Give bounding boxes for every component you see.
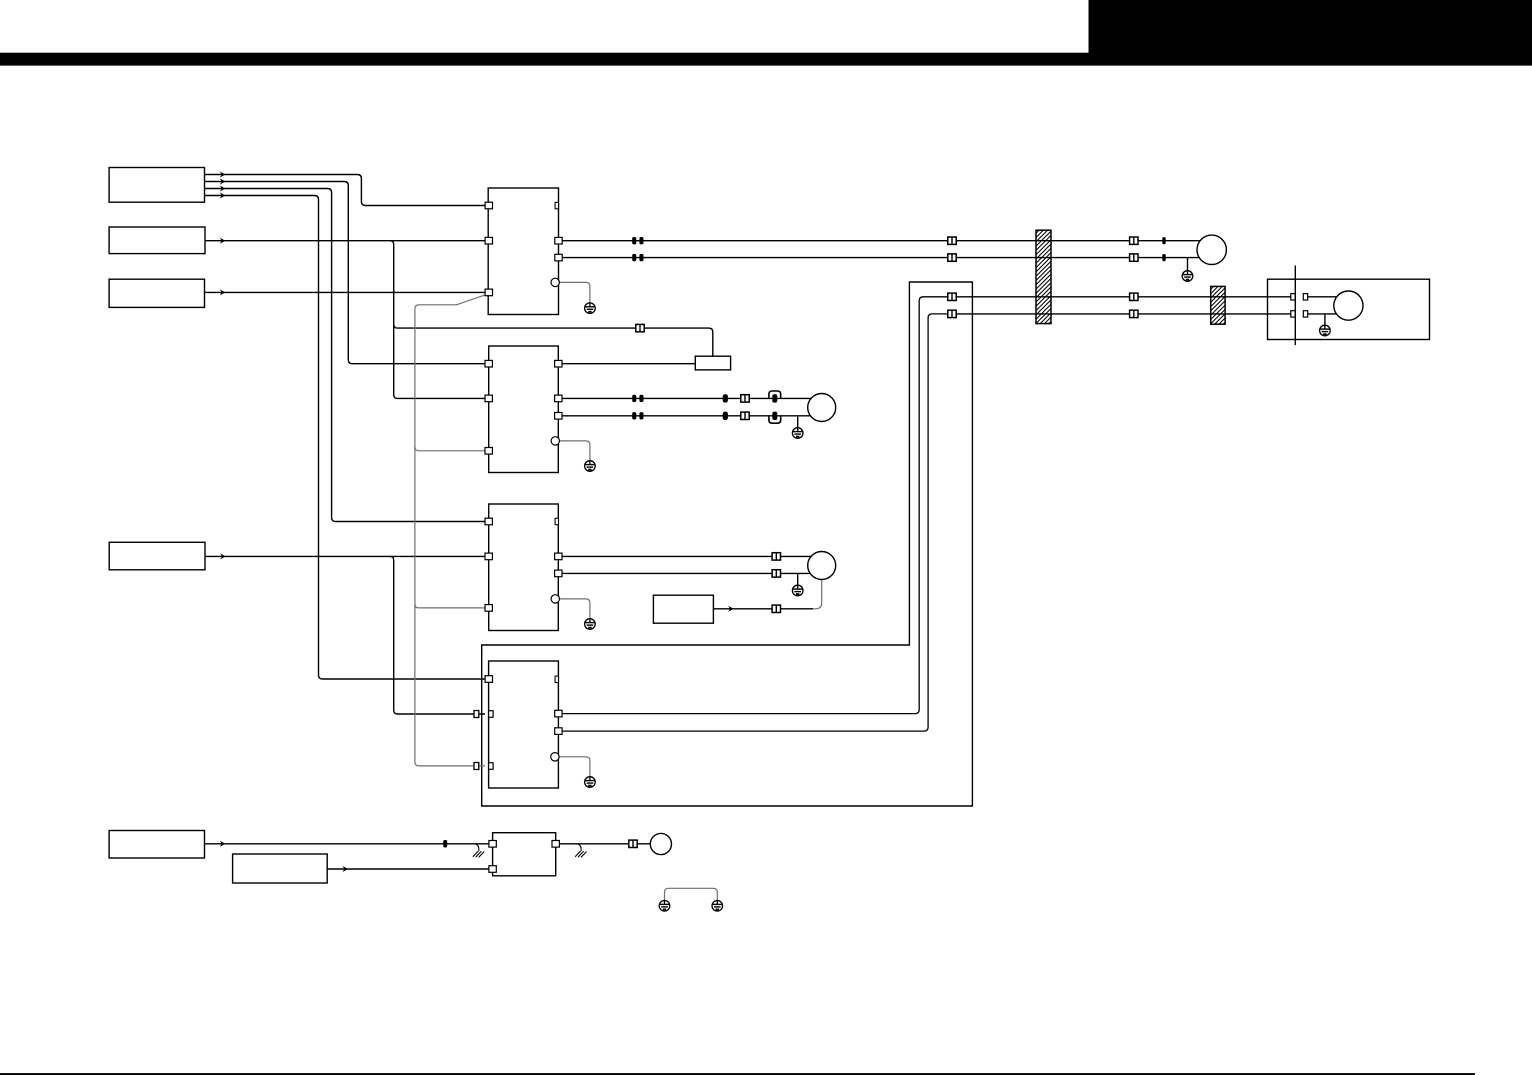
chassis ground on sounder line — [575, 844, 586, 858]
component box B4 — [109, 542, 205, 570]
wire to SP2 bottom terminal — [813, 580, 822, 609]
splice dot pair L at y=257.6 — [632, 254, 636, 261]
unit box RU (right-side device) — [1268, 279, 1430, 339]
grey bus branch to U2 pin3 — [415, 447, 485, 451]
connector unit U4 — [489, 661, 559, 788]
shield hatch bar 1 — [1036, 230, 1051, 323]
ground G6 (SP2) — [792, 585, 803, 596]
splice dot pair R at y=257.6 — [639, 254, 643, 261]
U4 pin out2 right — [555, 728, 562, 735]
splice dot SP1 line1 — [723, 394, 728, 402]
RU mounting boundary line — [1294, 266, 1296, 346]
wire U3 out2 to speaker SP2 — [562, 572, 811, 574]
ground G4 (U4) — [585, 777, 596, 788]
connector half U4 pin3 — [474, 763, 479, 770]
U5 pin 2 left — [489, 866, 496, 873]
speaker SP1 — [808, 394, 836, 422]
connector unit U5 — [493, 833, 556, 876]
wire U2 out1 to fuse box F — [562, 363, 696, 365]
U3 pin 1 left — [485, 518, 492, 525]
splice dot B5 line — [443, 840, 447, 848]
U3 top-right stub pin — [555, 518, 558, 524]
connector C relay line — [772, 605, 780, 612]
U2 pin out1 right — [555, 360, 562, 367]
sounder SP4 — [650, 833, 671, 854]
U3 pin out2 right — [555, 570, 562, 577]
RU pin row3 left — [1291, 294, 1295, 300]
grey bus branch to U3 pin3 — [415, 604, 485, 608]
wire branch B2 down to U2 pin2 — [390, 241, 485, 399]
U4 pin out1 right — [555, 710, 562, 717]
connector C SP2 line2 — [772, 570, 780, 577]
ground G7 (SP3) — [1182, 271, 1193, 282]
motor M in right unit — [1334, 291, 1363, 320]
wire U2 case ground — [559, 441, 590, 461]
splice dot pair R at y=398.4 — [639, 395, 643, 402]
bulb socket upper — [769, 391, 781, 397]
splice dot SP1 line2 — [723, 412, 728, 420]
connector C row4 right — [1130, 310, 1138, 317]
component box B2 — [109, 227, 205, 254]
grey bus U1 pin3 daisy chain — [415, 295, 486, 766]
wire B1 out2 to U2 pin1 — [205, 182, 486, 364]
wire row3 to right unit RU — [956, 296, 1291, 298]
connector C row1 right — [1130, 237, 1138, 244]
speaker SP3 — [1197, 235, 1226, 264]
connector C SP1 line1 — [741, 395, 749, 402]
wire B4 to U3 pin2 — [205, 555, 485, 557]
RU pin row3 right — [1303, 294, 1307, 300]
wire relay output after connector — [781, 608, 814, 610]
chassis ground on B5 line — [473, 844, 484, 858]
RU pin row4 right — [1303, 311, 1307, 317]
connector C row4 left — [948, 310, 956, 317]
wire SP1 ground drop — [797, 416, 799, 428]
wire U1 out2 to speaker SP3 — [562, 257, 1199, 259]
arrow B2 — [220, 238, 226, 244]
wire U4 out2 up through enclosure — [562, 314, 948, 731]
splice dot pair R at y=415.8 — [639, 412, 643, 419]
arrow relay output — [728, 606, 734, 612]
splice dot pair R at y=240.7 — [639, 237, 643, 244]
U1 top-right stub pin — [555, 202, 558, 208]
splice dot pair L at y=398.4 — [632, 395, 636, 402]
header rule bar — [0, 53, 1532, 66]
connector unit U1 — [488, 188, 558, 315]
connector C fuse line — [636, 324, 644, 331]
wire B1 out1 to U1 pin1 — [205, 175, 486, 206]
U5 pin out right — [552, 841, 559, 848]
wire U4 out1 up through enclosure — [562, 297, 948, 714]
ground G10 — [712, 901, 723, 912]
U1 case ground port — [551, 278, 559, 286]
arrow B1 out2 — [220, 178, 226, 184]
wire SP3 ground drop — [1187, 258, 1189, 271]
splice dot pair L at y=240.7 — [632, 237, 636, 244]
U2 pin out3 right — [555, 413, 562, 420]
speaker SP2 — [808, 552, 836, 580]
wire RU pin to motor — [1308, 296, 1338, 298]
wire B2 to U1 pin2 — [205, 240, 485, 242]
wire U3 case ground — [559, 599, 590, 619]
wire twin ground bracket — [665, 888, 718, 900]
component box B3 — [109, 279, 204, 307]
component box B1 (4-output source) — [109, 168, 204, 203]
connector C row2 right — [1130, 254, 1138, 261]
wire branch to fuse box F — [394, 324, 713, 356]
U1 pin 3 left — [485, 289, 492, 296]
shield hatch bar 2 — [1211, 286, 1225, 324]
arrow B6 — [343, 866, 349, 872]
wire U3 out1 to speaker SP2 — [562, 555, 811, 557]
connector C row1 left — [948, 237, 956, 244]
connector C row3 left — [948, 293, 956, 300]
U2 pin 1 left — [485, 360, 492, 367]
splice dot pair L at y=415.8 — [632, 412, 636, 419]
arrow B3 — [220, 289, 226, 295]
wire B5 to U5 pin1 — [205, 843, 490, 845]
U3 case ground port — [551, 595, 559, 603]
U2 case ground port — [551, 437, 559, 445]
ground G3 (U3) — [585, 619, 596, 630]
wire U2 out3 to speaker SP1 — [562, 415, 811, 417]
arrow B5 — [220, 841, 226, 847]
wire RU pin to motor low — [1308, 313, 1337, 315]
splice dot row1 right — [1162, 237, 1165, 244]
wire U1 out1 to speaker SP3 — [562, 240, 1200, 242]
wire U2 out2 to speaker SP1 — [562, 397, 811, 399]
U3 pin out1 right — [555, 553, 562, 560]
wire SP2 ground drop — [797, 573, 799, 585]
harness enclosure boundary — [482, 282, 973, 806]
connector unit U3 — [489, 504, 559, 631]
arrow B1 out4 — [220, 192, 226, 198]
fuse box F — [695, 356, 730, 370]
connector C row3 right — [1130, 293, 1138, 300]
wire U1 case ground — [559, 282, 590, 302]
U1 pin 1 left — [485, 202, 492, 209]
U4 top-right stub pin — [555, 676, 558, 682]
U2 pin 2 left — [485, 395, 492, 402]
U3 pin 3 left — [485, 605, 492, 612]
ground G8 (right unit) — [1320, 325, 1331, 336]
footer rule — [0, 1073, 1475, 1075]
ground G1 (U1) — [585, 303, 596, 314]
wire U4 case ground — [559, 757, 590, 777]
wire B1 out3 to U3 pin1 — [205, 189, 486, 522]
component box B6 — [233, 854, 328, 883]
U4 case ground port — [551, 753, 559, 761]
U1 pin out1 right — [555, 237, 562, 244]
wire row4 to right unit RU — [956, 313, 1291, 315]
U1 pin out2 right — [555, 254, 562, 261]
splice dot row2 right — [1162, 254, 1165, 261]
RU pin row4 left — [1291, 311, 1295, 317]
ground G5 (SP1) — [792, 428, 803, 439]
component box B5 — [109, 831, 204, 859]
wire relay R output — [713, 608, 772, 610]
U4 pin 3 left half — [489, 763, 494, 770]
connector half U4 pin2 — [474, 711, 479, 718]
connector C sounder line — [629, 840, 637, 847]
connector C row2 left — [948, 254, 956, 261]
ground G9 — [659, 901, 670, 912]
wire B6 to U5 pin2 — [327, 868, 489, 870]
relay box R — [653, 595, 713, 623]
U1 pin 2 left — [485, 237, 492, 244]
wire RU ground drop — [1324, 314, 1326, 325]
U4 pin 2 left half — [489, 711, 494, 718]
U5 pin 1 left — [489, 841, 496, 848]
wire branch B4 down to U4 pin2 — [390, 556, 485, 714]
U4 pin 1 left — [485, 676, 492, 683]
U2 pin out2 right — [555, 395, 562, 402]
wire B1 out4 to U4 pin1 — [205, 196, 486, 680]
U2 pin 3 left — [485, 448, 492, 455]
header black title block — [1089, 0, 1532, 54]
connector unit U2 — [489, 346, 559, 473]
bulb socket lower — [769, 417, 781, 423]
wire U5 out to sounder — [556, 843, 651, 845]
connector C SP1 line2 — [741, 412, 749, 419]
ground G2 (U2) — [585, 461, 596, 472]
wire B3 to U1 pin3 — [205, 291, 486, 293]
arrow B1 out3 — [220, 185, 226, 191]
arrow B1 out1 — [220, 171, 226, 177]
U3 pin 2 left — [485, 553, 492, 560]
arrow B4 — [220, 553, 226, 559]
connector C SP2 line1 — [772, 553, 780, 560]
